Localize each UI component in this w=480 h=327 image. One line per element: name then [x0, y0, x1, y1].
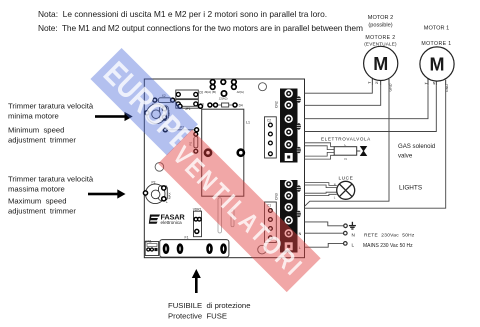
gas valve coil [334, 147, 357, 156]
jumper pads J3 [204, 80, 244, 101]
terminal block CN2 [274, 89, 297, 163]
svg-text:L: L [352, 242, 355, 247]
connector CN1 [145, 239, 158, 255]
svg-text:Trimmer taratura velocità: Trimmer taratura velocità [8, 175, 94, 184]
svg-text:MAINS 230 Vac 50 Hz: MAINS 230 Vac 50 Hz [363, 243, 413, 249]
wire N [304, 232, 343, 234]
cable clamp 5 [297, 211, 301, 218]
wire M2 GND return [304, 85, 389, 206]
arrow to P2 [88, 189, 126, 198]
trimmer P1 [145, 103, 171, 124]
svg-text:elettronica: elettronica [161, 220, 183, 225]
svg-text:J2(G): J2(G) [237, 90, 245, 94]
svg-text:LUCE: LUCE [339, 175, 354, 181]
svg-text:MOTOR 2: MOTOR 2 [368, 15, 393, 21]
svg-text:ELETTROVALVOLA: ELETTROVALVOLA [321, 136, 371, 141]
svg-text:N: N [345, 157, 347, 161]
lamp [337, 181, 355, 199]
wire valve bottom [304, 152, 334, 159]
svg-text:CN2: CN2 [274, 101, 278, 108]
svg-text:JP1: JP1 [185, 107, 191, 111]
watermark blue stripe EUROPE [90, 48, 203, 161]
label max speed trimmer [8, 175, 94, 216]
svg-text:N: N [334, 182, 336, 186]
fuse F1 [160, 236, 229, 258]
arrow to P1 [95, 112, 133, 121]
fuse arrow [192, 269, 201, 293]
svg-text:N: N [352, 233, 355, 238]
motor M2 [364, 46, 398, 85]
svg-text:minima motore: minima motore [8, 112, 59, 121]
mounting hole left [155, 163, 164, 172]
svg-text:F1: F1 [185, 236, 189, 240]
label min speed trimmer [8, 102, 94, 145]
varistor VDR1 [193, 208, 202, 237]
cable clamp 3 [297, 147, 301, 154]
svg-text:M: M [430, 55, 445, 75]
watermark red stripe VENTILATORI [158, 130, 321, 293]
wire lamp bottom [304, 192, 336, 195]
wire L [304, 243, 343, 247]
svg-text:GAS solenoid: GAS solenoid [398, 143, 435, 150]
cable clamp 4 [297, 185, 301, 192]
wire earth [304, 222, 343, 226]
svg-text:J3(A) (B): J3(A) (B) [204, 90, 216, 94]
svg-text:LIGHTS: LIGHTS [399, 184, 422, 191]
wire board to M2 pin2 [304, 85, 380, 105]
svg-text:Minimum speed: Minimum speed [8, 126, 64, 135]
capacitor C6 [176, 90, 204, 99]
svg-text:Trimmer taratura velocità: Trimmer taratura velocità [8, 102, 94, 111]
connector C2 [265, 117, 277, 158]
svg-text:(possible): (possible) [368, 23, 392, 29]
resistor R1 [189, 132, 198, 153]
wire valve top [304, 143, 334, 150]
motor M2 labels [364, 15, 397, 47]
trimmer P2 [143, 181, 171, 205]
wire M1 GND return [304, 85, 445, 208]
jumper JP2 [163, 126, 198, 132]
svg-text:adjustment trimmer: adjustment trimmer [8, 136, 76, 145]
svg-text:D4: D4 [239, 104, 243, 108]
component X2 [153, 94, 175, 103]
capacitor C8 [231, 209, 234, 227]
capacitor C7 [218, 198, 222, 233]
svg-text:CN3: CN3 [274, 193, 278, 200]
svg-text:FUSIBILE di protezione: FUSIBILE di protezione [168, 301, 250, 310]
earth symbol [349, 222, 356, 229]
svg-text:⊢: ⊢ [368, 81, 371, 85]
svg-text:Protective FUSE: Protective FUSE [168, 312, 227, 321]
motor M1 [420, 47, 454, 85]
jumper JP1 [178, 103, 243, 111]
wire board to M1 pin2 [304, 85, 436, 131]
wire lamp top [304, 183, 336, 188]
svg-text:C2: C2 [267, 119, 271, 123]
terminal block CN3 [274, 180, 301, 253]
capacitor C3 [176, 100, 204, 109]
svg-text:+: + [166, 201, 168, 205]
svg-text:MAX: MAX [168, 192, 172, 199]
svg-text:MOTORE 1: MOTORE 1 [421, 41, 451, 47]
svg-text:J2(A2): J2(A2) [219, 96, 228, 100]
svg-text:RETE 230Vac 50Hz: RETE 230Vac 50Hz [364, 233, 415, 239]
svg-text:valve: valve [398, 153, 413, 160]
svg-text:Maximum speed: Maximum speed [8, 197, 67, 206]
connector C1 [265, 202, 277, 243]
svg-text:C6: C6 [199, 91, 203, 95]
wire board to M1 pin1 [304, 85, 428, 118]
svg-text:massima motore: massima motore [8, 185, 65, 194]
svg-text:MOTOR 1: MOTOR 1 [424, 26, 449, 32]
inductor L1 [202, 109, 250, 196]
svg-text:N: N [299, 232, 302, 236]
cable clamp 2 [297, 123, 301, 130]
svg-text:adjustment trimmer: adjustment trimmer [8, 207, 76, 216]
mounting hole top right [259, 83, 267, 91]
gas valve symbol [357, 150, 361, 152]
svg-text:M: M [373, 54, 388, 74]
svg-text:MOTORE 2: MOTORE 2 [365, 35, 395, 41]
cable clamp 1 [297, 96, 301, 103]
motor M1 labels [421, 26, 451, 48]
svg-text:Note: The M1 and M2 output co: Note: The M1 and M2 output connections f… [38, 23, 363, 33]
mounting hole bottom right [258, 245, 267, 254]
FASAR logo [149, 213, 186, 225]
svg-text:⊢: ⊢ [425, 82, 428, 86]
svg-text:Nota: Le connessioni di uscit: Nota: Le connessioni di uscita M1 e M2 p… [38, 9, 327, 19]
svg-text:L1: L1 [246, 121, 250, 125]
board outline [144, 79, 304, 258]
wire board to M2 pin1 [304, 85, 372, 93]
